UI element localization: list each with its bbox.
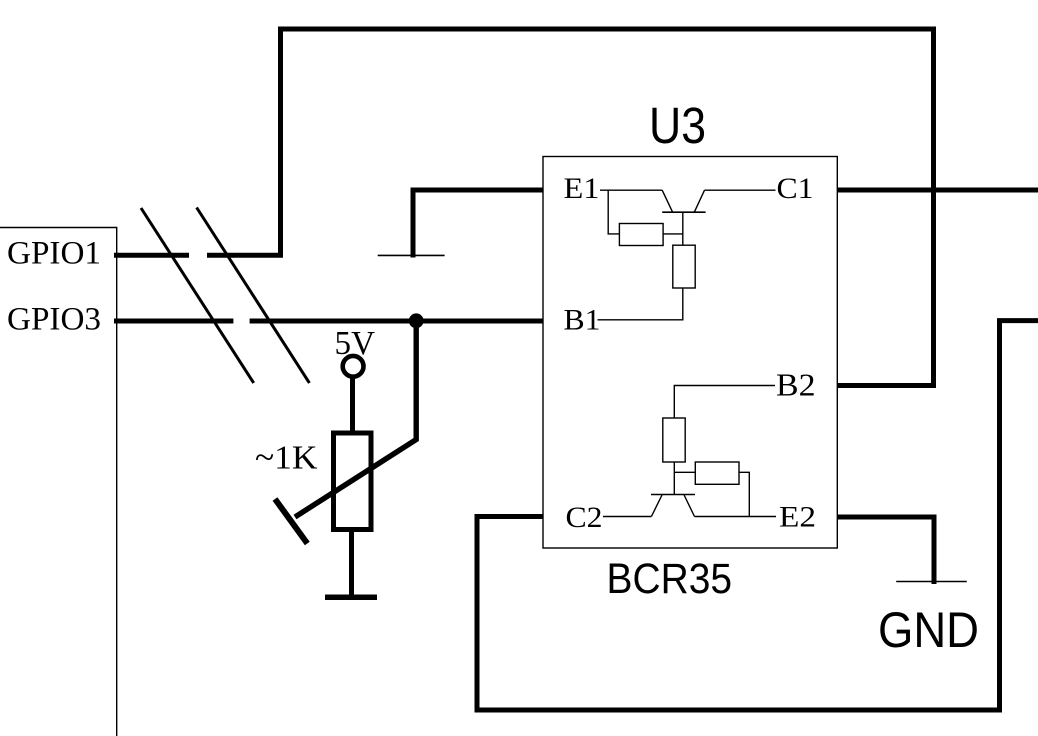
wire Q1 collector to C1 label: [705, 189, 776, 191]
wire E2 to GND: [837, 517, 934, 584]
wire drop from E1 line to R1: [608, 190, 619, 234]
wire R2 to B1 label: [598, 288, 683, 320]
connector J1 (GPIO header box): [0, 228, 117, 736]
svg-text:GPIO1: GPIO1: [7, 236, 101, 272]
svg-text:GPIO3: GPIO3: [7, 301, 101, 337]
transistor Q1 base bar: [662, 211, 705, 213]
svg-text:B2: B2: [776, 368, 816, 403]
resistor R3 (vertical, lower): [663, 418, 685, 462]
wire GPIO3 to B1: [250, 319, 543, 324]
svg-text:C2: C2: [566, 501, 603, 534]
transistor Q1 collector diagonal: [694, 190, 704, 212]
wire E1 label to Q1 emitter: [600, 189, 662, 191]
wire resistor R5 to ground: [349, 530, 354, 596]
svg-text:C1: C1: [777, 172, 814, 205]
wire R4 to E2 line: [739, 472, 749, 516]
resistor R2 (vertical, upper): [673, 245, 695, 288]
wire GPIO1 segment (left of slash gap): [114, 253, 189, 258]
wire GPIO1 to B2 (net GPIO1: right, up, across top, down to B2): [207, 29, 934, 386]
wire Q2 emitter to E2 label: [695, 516, 777, 518]
transistor Q2 base vertical: [673, 462, 675, 495]
ground bar GND: [896, 581, 967, 583]
wire E1 to ground: [413, 190, 543, 258]
resistor R5 ~1K (trimmer body): [334, 433, 372, 530]
svg-text:E2: E2: [779, 501, 816, 534]
ground bar under R5: [325, 595, 377, 601]
ground bar E1: [378, 254, 445, 256]
svg-text:BCR35: BCR35: [607, 556, 733, 603]
transistor Q1 emitter diagonal: [662, 190, 672, 212]
resistor R4 (horizontal, lower): [695, 462, 739, 484]
trimmer wiper T-bar: [275, 499, 307, 544]
wire B2 label to R3: [674, 386, 775, 419]
svg-text:GND: GND: [878, 602, 979, 658]
wire C1 to right edge: [837, 188, 1038, 193]
resistor R1 (horizontal, upper): [619, 224, 663, 246]
transistor Q2 collector diagonal: [651, 495, 662, 517]
svg-text:E1: E1: [564, 172, 600, 205]
wire R1 to Q1 base: [663, 233, 683, 235]
wire C2 label to Q2 collector: [603, 516, 651, 518]
wire junction to trimmer wiper: [295, 323, 416, 517]
svg-text:U3: U3: [649, 97, 706, 154]
wire 5V circle to resistor R5: [350, 378, 355, 433]
transistor Q1 base vertical: [682, 212, 684, 245]
transistor Q2 base bar: [651, 494, 695, 496]
transistor Q2 emitter diagonal: [684, 495, 694, 517]
IC U3 box: [543, 157, 837, 549]
wire Q2 base junction to R4: [674, 471, 695, 473]
slash mark 1 (crossing GPIO wires): [141, 208, 254, 383]
wire GPIO3 segment (left of slash gap): [114, 319, 233, 324]
svg-text:~1K: ~1K: [255, 440, 318, 477]
wire C2 loop to right edge: [477, 321, 1038, 710]
svg-text:B1: B1: [564, 303, 601, 336]
power terminal circle 5V: [343, 356, 364, 377]
junction dot on GPIO3 net: [409, 313, 424, 328]
slash mark 2 (crossing GPIO wires): [197, 208, 310, 384]
